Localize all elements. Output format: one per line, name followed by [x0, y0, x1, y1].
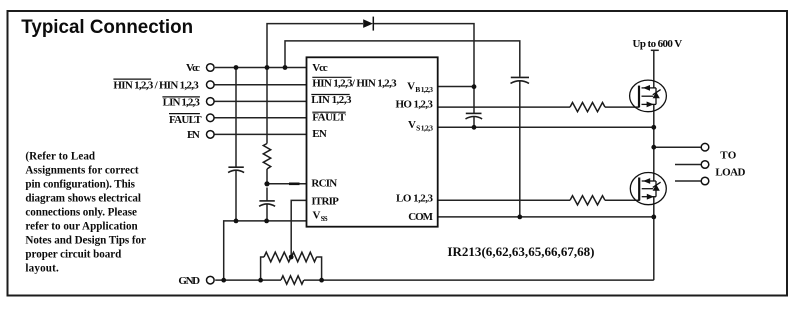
svg-text:RCIN: RCIN	[311, 177, 337, 189]
svg-text:TO: TO	[720, 149, 737, 161]
svg-text:EN: EN	[187, 129, 200, 141]
svg-text:HIN 1,2,3 / HIN 1,2,3: HIN 1,2,3 / HIN 1,2,3	[113, 79, 199, 91]
svg-text:Up to 600 V: Up to 600 V	[633, 38, 683, 50]
svg-text:LIN 1,2,3: LIN 1,2,3	[163, 97, 201, 109]
svg-text:FAULT: FAULT	[312, 112, 346, 124]
svg-text:IR213(6,62,63,65,66,67,68): IR213(6,62,63,65,66,67,68)	[447, 244, 594, 259]
svg-text:FAULT: FAULT	[169, 114, 202, 126]
svg-text:connections only. Please: connections only. Please	[25, 207, 137, 219]
svg-text:HIN 1,2,3/ HIN 1,2,3: HIN 1,2,3/ HIN 1,2,3	[312, 77, 397, 89]
svg-text:ITRIP: ITRIP	[311, 195, 339, 207]
svg-text:pin configuration). This: pin configuration). This	[25, 179, 135, 191]
svg-text:Notes and Design Tips for: Notes and Design Tips for	[25, 235, 146, 247]
svg-text:EN: EN	[312, 128, 327, 140]
svg-text:V: V	[408, 119, 416, 131]
svg-text:LIN 1,2,3: LIN 1,2,3	[311, 94, 352, 106]
svg-text:S 1,2,3: S 1,2,3	[416, 123, 433, 132]
svg-text:LOAD: LOAD	[715, 167, 745, 179]
svg-text:SS: SS	[321, 215, 328, 223]
svg-text:(Refer to Lead: (Refer to Lead	[25, 151, 96, 163]
svg-text:LO 1,2,3: LO 1,2,3	[396, 193, 434, 205]
svg-text:HO 1,2,3: HO 1,2,3	[396, 99, 434, 111]
svg-text:Vcc: Vcc	[186, 62, 200, 74]
svg-text:V: V	[407, 81, 415, 93]
svg-text:refer to our Application: refer to our Application	[25, 221, 137, 233]
svg-text:Assignments for correct: Assignments for correct	[25, 165, 138, 177]
svg-text:Vcc: Vcc	[312, 62, 328, 74]
svg-text:diagram shows electrical: diagram shows electrical	[25, 193, 141, 205]
svg-text:B 1,2,3: B 1,2,3	[415, 85, 433, 94]
svg-text:V: V	[313, 210, 321, 222]
svg-text:GND: GND	[178, 275, 200, 287]
svg-text:Typical Connection: Typical Connection	[21, 17, 193, 38]
svg-text:COM: COM	[408, 211, 433, 223]
svg-text:proper circuit board: proper circuit board	[25, 249, 122, 261]
svg-text:layout.: layout.	[25, 263, 59, 275]
